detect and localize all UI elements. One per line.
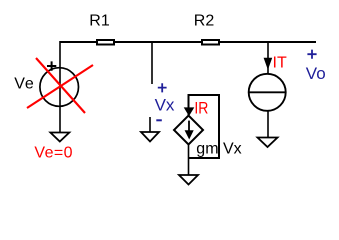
polarity plus of Ve: [47, 61, 56, 70]
svg-text:Vo: Vo: [306, 64, 326, 83]
chord inside IT circle: [249, 91, 286, 93]
node plus of Vo: [307, 50, 316, 59]
svg-text:Ve: Ve: [14, 76, 34, 93]
red cross line 1 over Ve: [36, 58, 85, 113]
svg-text:Ve=0: Ve=0: [34, 145, 73, 162]
voltage source Ve circle: [40, 68, 79, 107]
wire diamond bottom to ground: [188, 145, 190, 176]
wire node Vx stub: [151, 42, 153, 84]
red cross line 2 over Ve: [27, 65, 93, 108]
dependent source diamond gmVx: [174, 116, 203, 145]
current arrow IR: [185, 108, 194, 115]
svg-text:R2: R2: [194, 13, 215, 30]
wire Ve branch vertical: [59, 41, 61, 132]
arrow inside diamond: [188, 121, 190, 132]
wire top bus: [60, 41, 316, 43]
ground below gm source: [179, 175, 198, 185]
svg-text:Vx: Vx: [155, 96, 175, 115]
resistor R1: [97, 40, 114, 45]
wire IT branch bottom: [267, 110, 269, 138]
ground below Ve: [50, 133, 69, 142]
ground below Vx: [149, 117, 151, 132]
node minus of Vx: [156, 119, 162, 121]
wire gm-loop rectangle: [189, 95, 220, 158]
node plus of Vx: [158, 83, 167, 92]
svg-text:IT: IT: [273, 55, 287, 72]
current arrow IT: [264, 58, 271, 68]
svg-text:R1: R1: [89, 13, 110, 30]
ground below IT: [258, 138, 278, 148]
svg-text:gm Vx: gm Vx: [196, 141, 241, 158]
current source IT circle: [249, 74, 286, 111]
wire IT branch top: [267, 42, 269, 74]
svg-text:IR: IR: [194, 99, 208, 118]
resistor R2: [202, 40, 219, 45]
